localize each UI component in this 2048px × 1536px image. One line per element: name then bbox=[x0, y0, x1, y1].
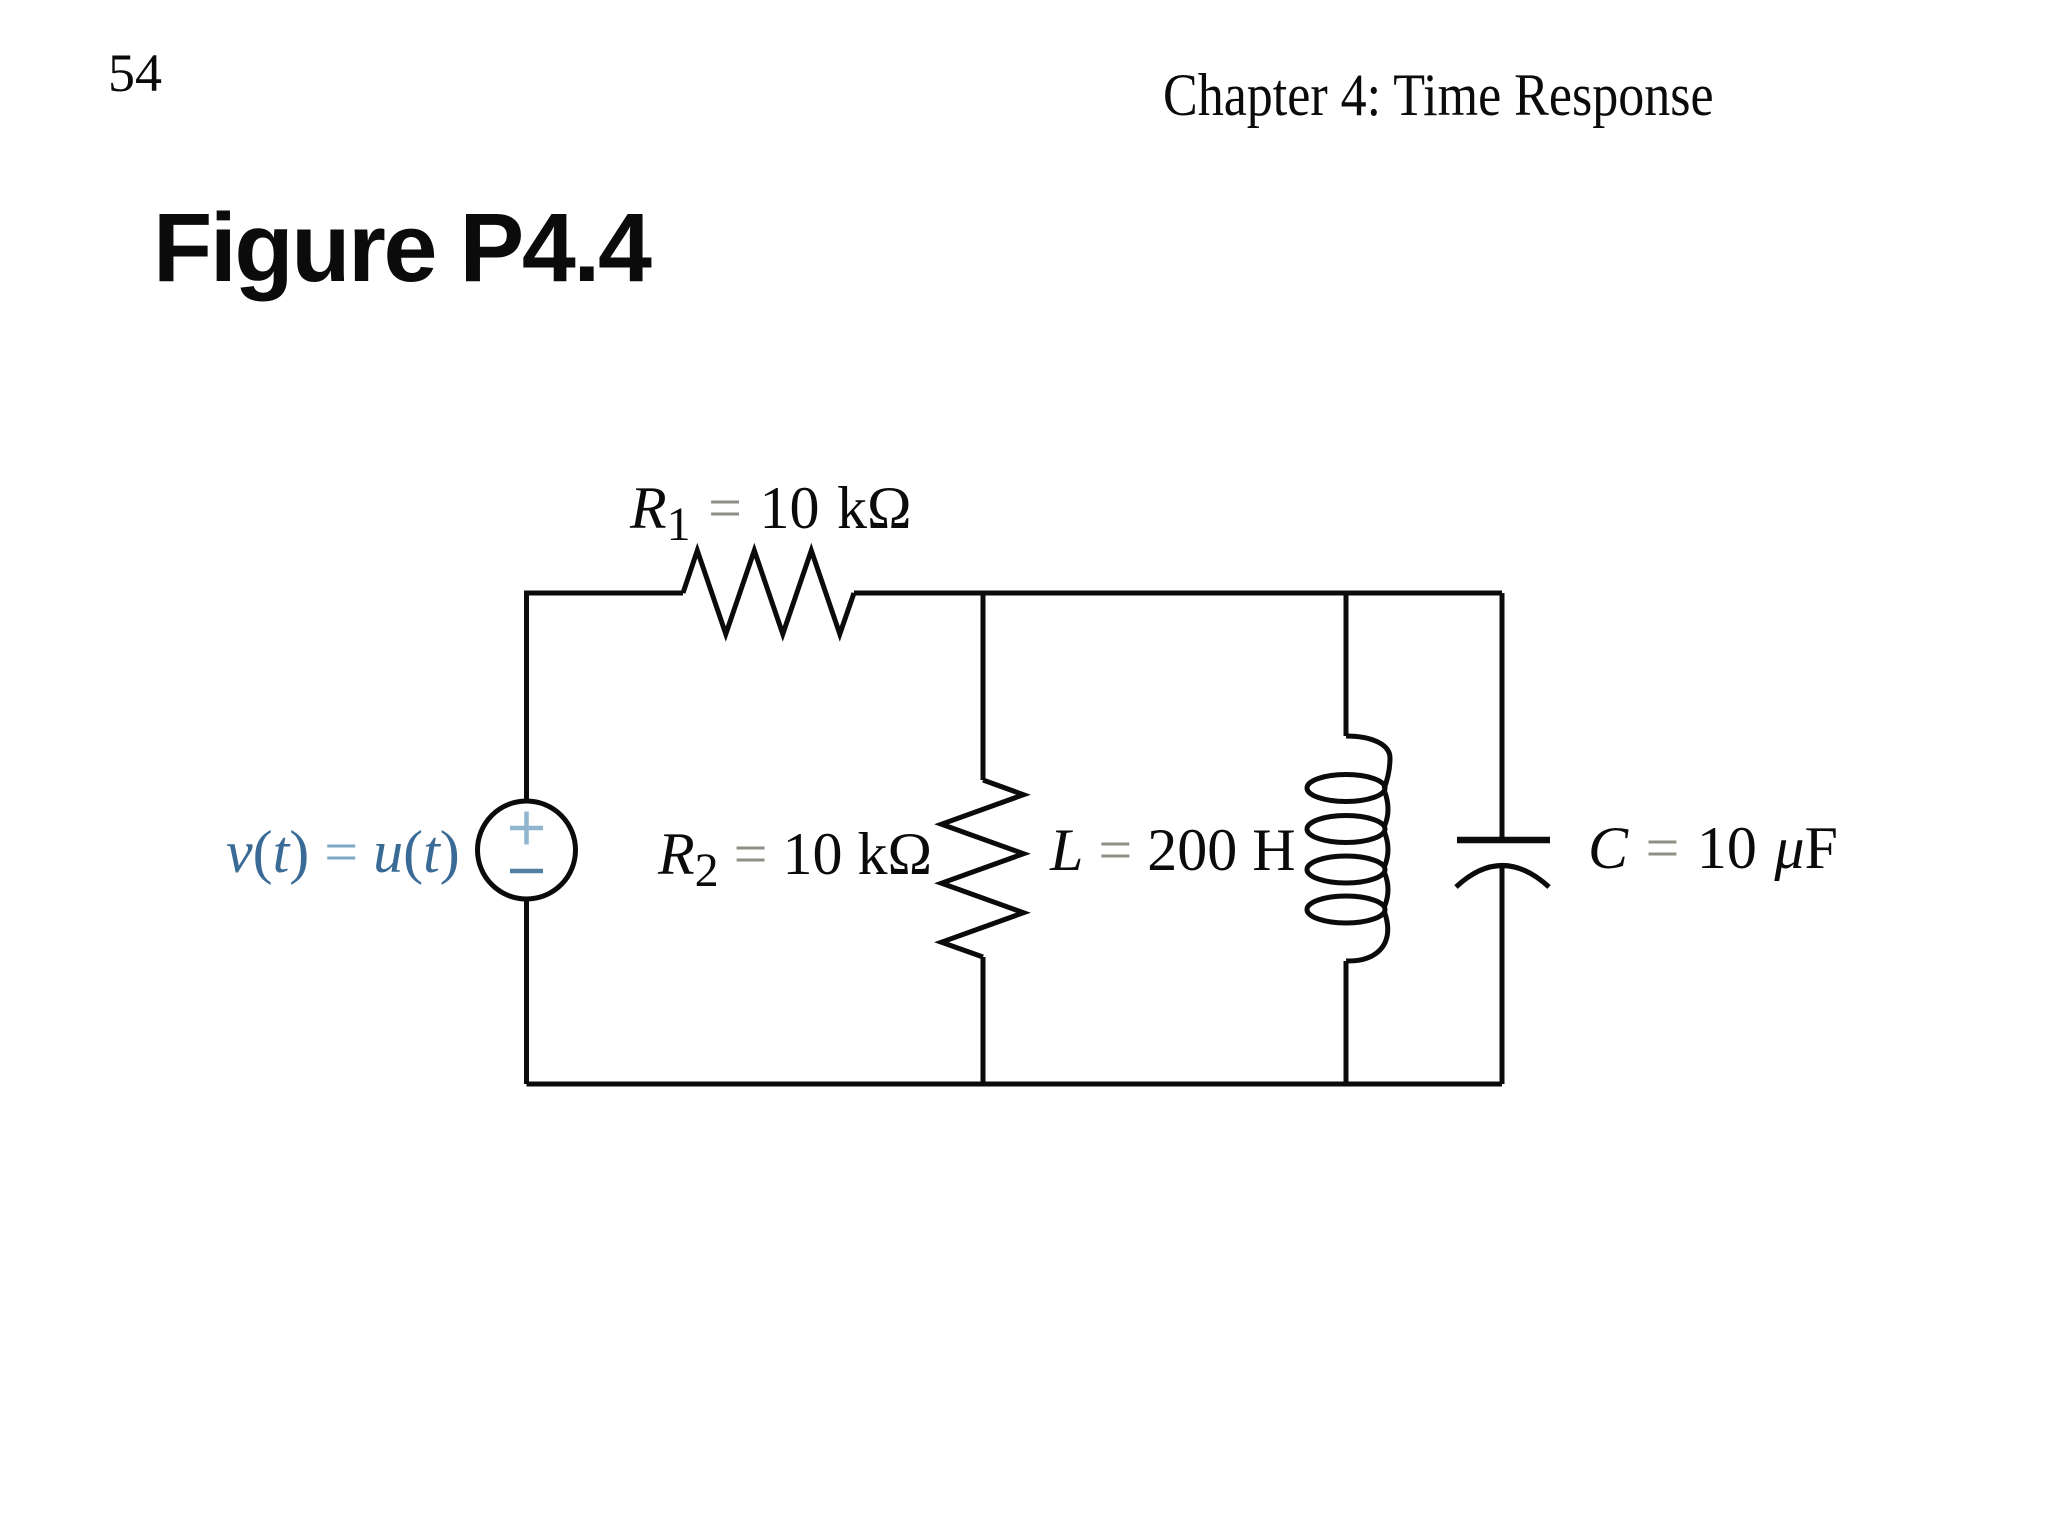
wire: inductor branch bottom bbox=[1344, 961, 1349, 1084]
wire: inductor branch top bbox=[1344, 593, 1349, 736]
label R1 = 10 kOhm bbox=[630, 478, 912, 538]
capacitor C bottom curved plate bbox=[1456, 866, 1549, 888]
wire: left edge bottom up to source bbox=[524, 898, 529, 1084]
wire: top-left segment from source to R1 bbox=[527, 593, 684, 802]
wire: R2 branch bottom bbox=[981, 957, 986, 1084]
source minus sign bbox=[510, 869, 543, 874]
label C = 10 uF bbox=[1588, 818, 1838, 878]
header: Chapter 4: Time Response bbox=[1163, 65, 1714, 125]
source plus sign bbox=[510, 812, 543, 845]
resistor R2 bbox=[942, 780, 1024, 957]
voltage source circle bbox=[478, 801, 576, 899]
wire: right edge below capacitor to bottom bbox=[1500, 866, 1505, 1084]
label v(t) = u(t) bbox=[226, 822, 460, 882]
label R2 = 10 kOhm bbox=[658, 824, 932, 884]
wire: bottom rail bbox=[527, 1082, 1503, 1087]
wire: top-right segment from R1 to right edge bbox=[854, 591, 1502, 596]
wire: right edge down to capacitor bbox=[1500, 593, 1505, 840]
title: Figure P4.4 bbox=[153, 199, 650, 296]
label L = 200 H bbox=[1050, 820, 1296, 880]
wire: R2 branch top bbox=[981, 593, 986, 780]
resistor R1 bbox=[683, 551, 854, 635]
inductor L coil bbox=[1307, 736, 1390, 961]
capacitor C top plate bbox=[1457, 837, 1550, 844]
page number 54 bbox=[108, 46, 162, 100]
